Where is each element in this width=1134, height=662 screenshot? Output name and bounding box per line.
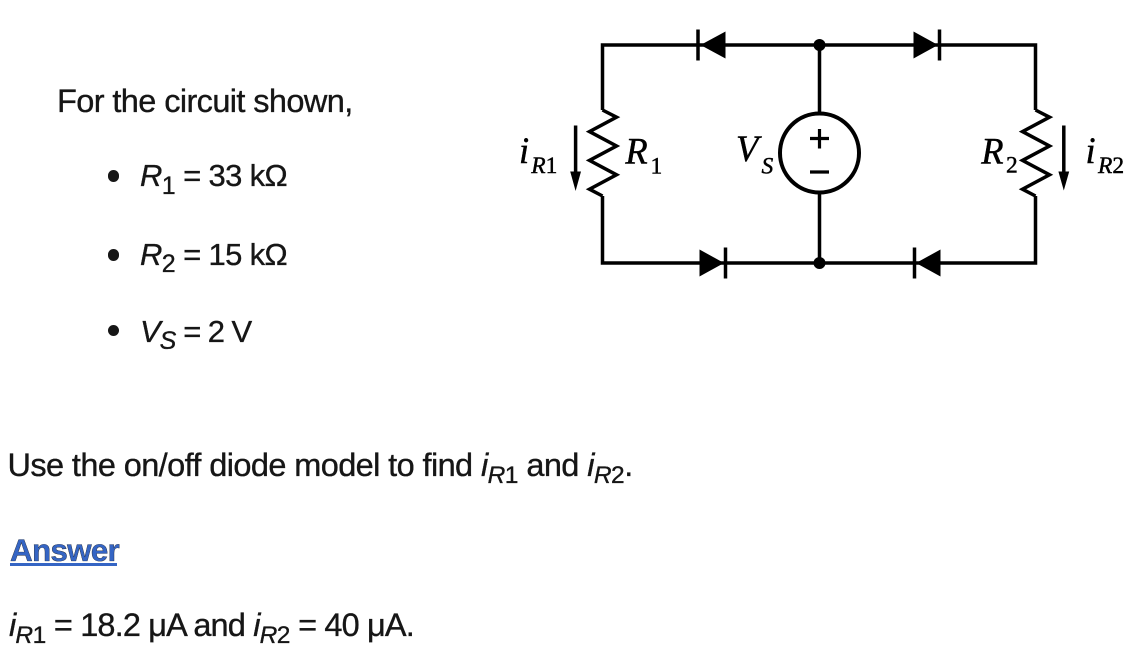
svg-text:i: i bbox=[1086, 130, 1096, 171]
svg-text:1: 1 bbox=[651, 153, 663, 179]
svg-text:R: R bbox=[624, 130, 647, 171]
svg-text:V: V bbox=[736, 128, 762, 169]
svg-text:S: S bbox=[762, 154, 774, 180]
svg-text:R: R bbox=[980, 130, 1003, 171]
svg-text:2: 2 bbox=[1006, 153, 1018, 179]
svg-text:i: i bbox=[519, 130, 529, 171]
svg-text:R2: R2 bbox=[1097, 153, 1124, 179]
svg-text:R1: R1 bbox=[530, 153, 557, 179]
